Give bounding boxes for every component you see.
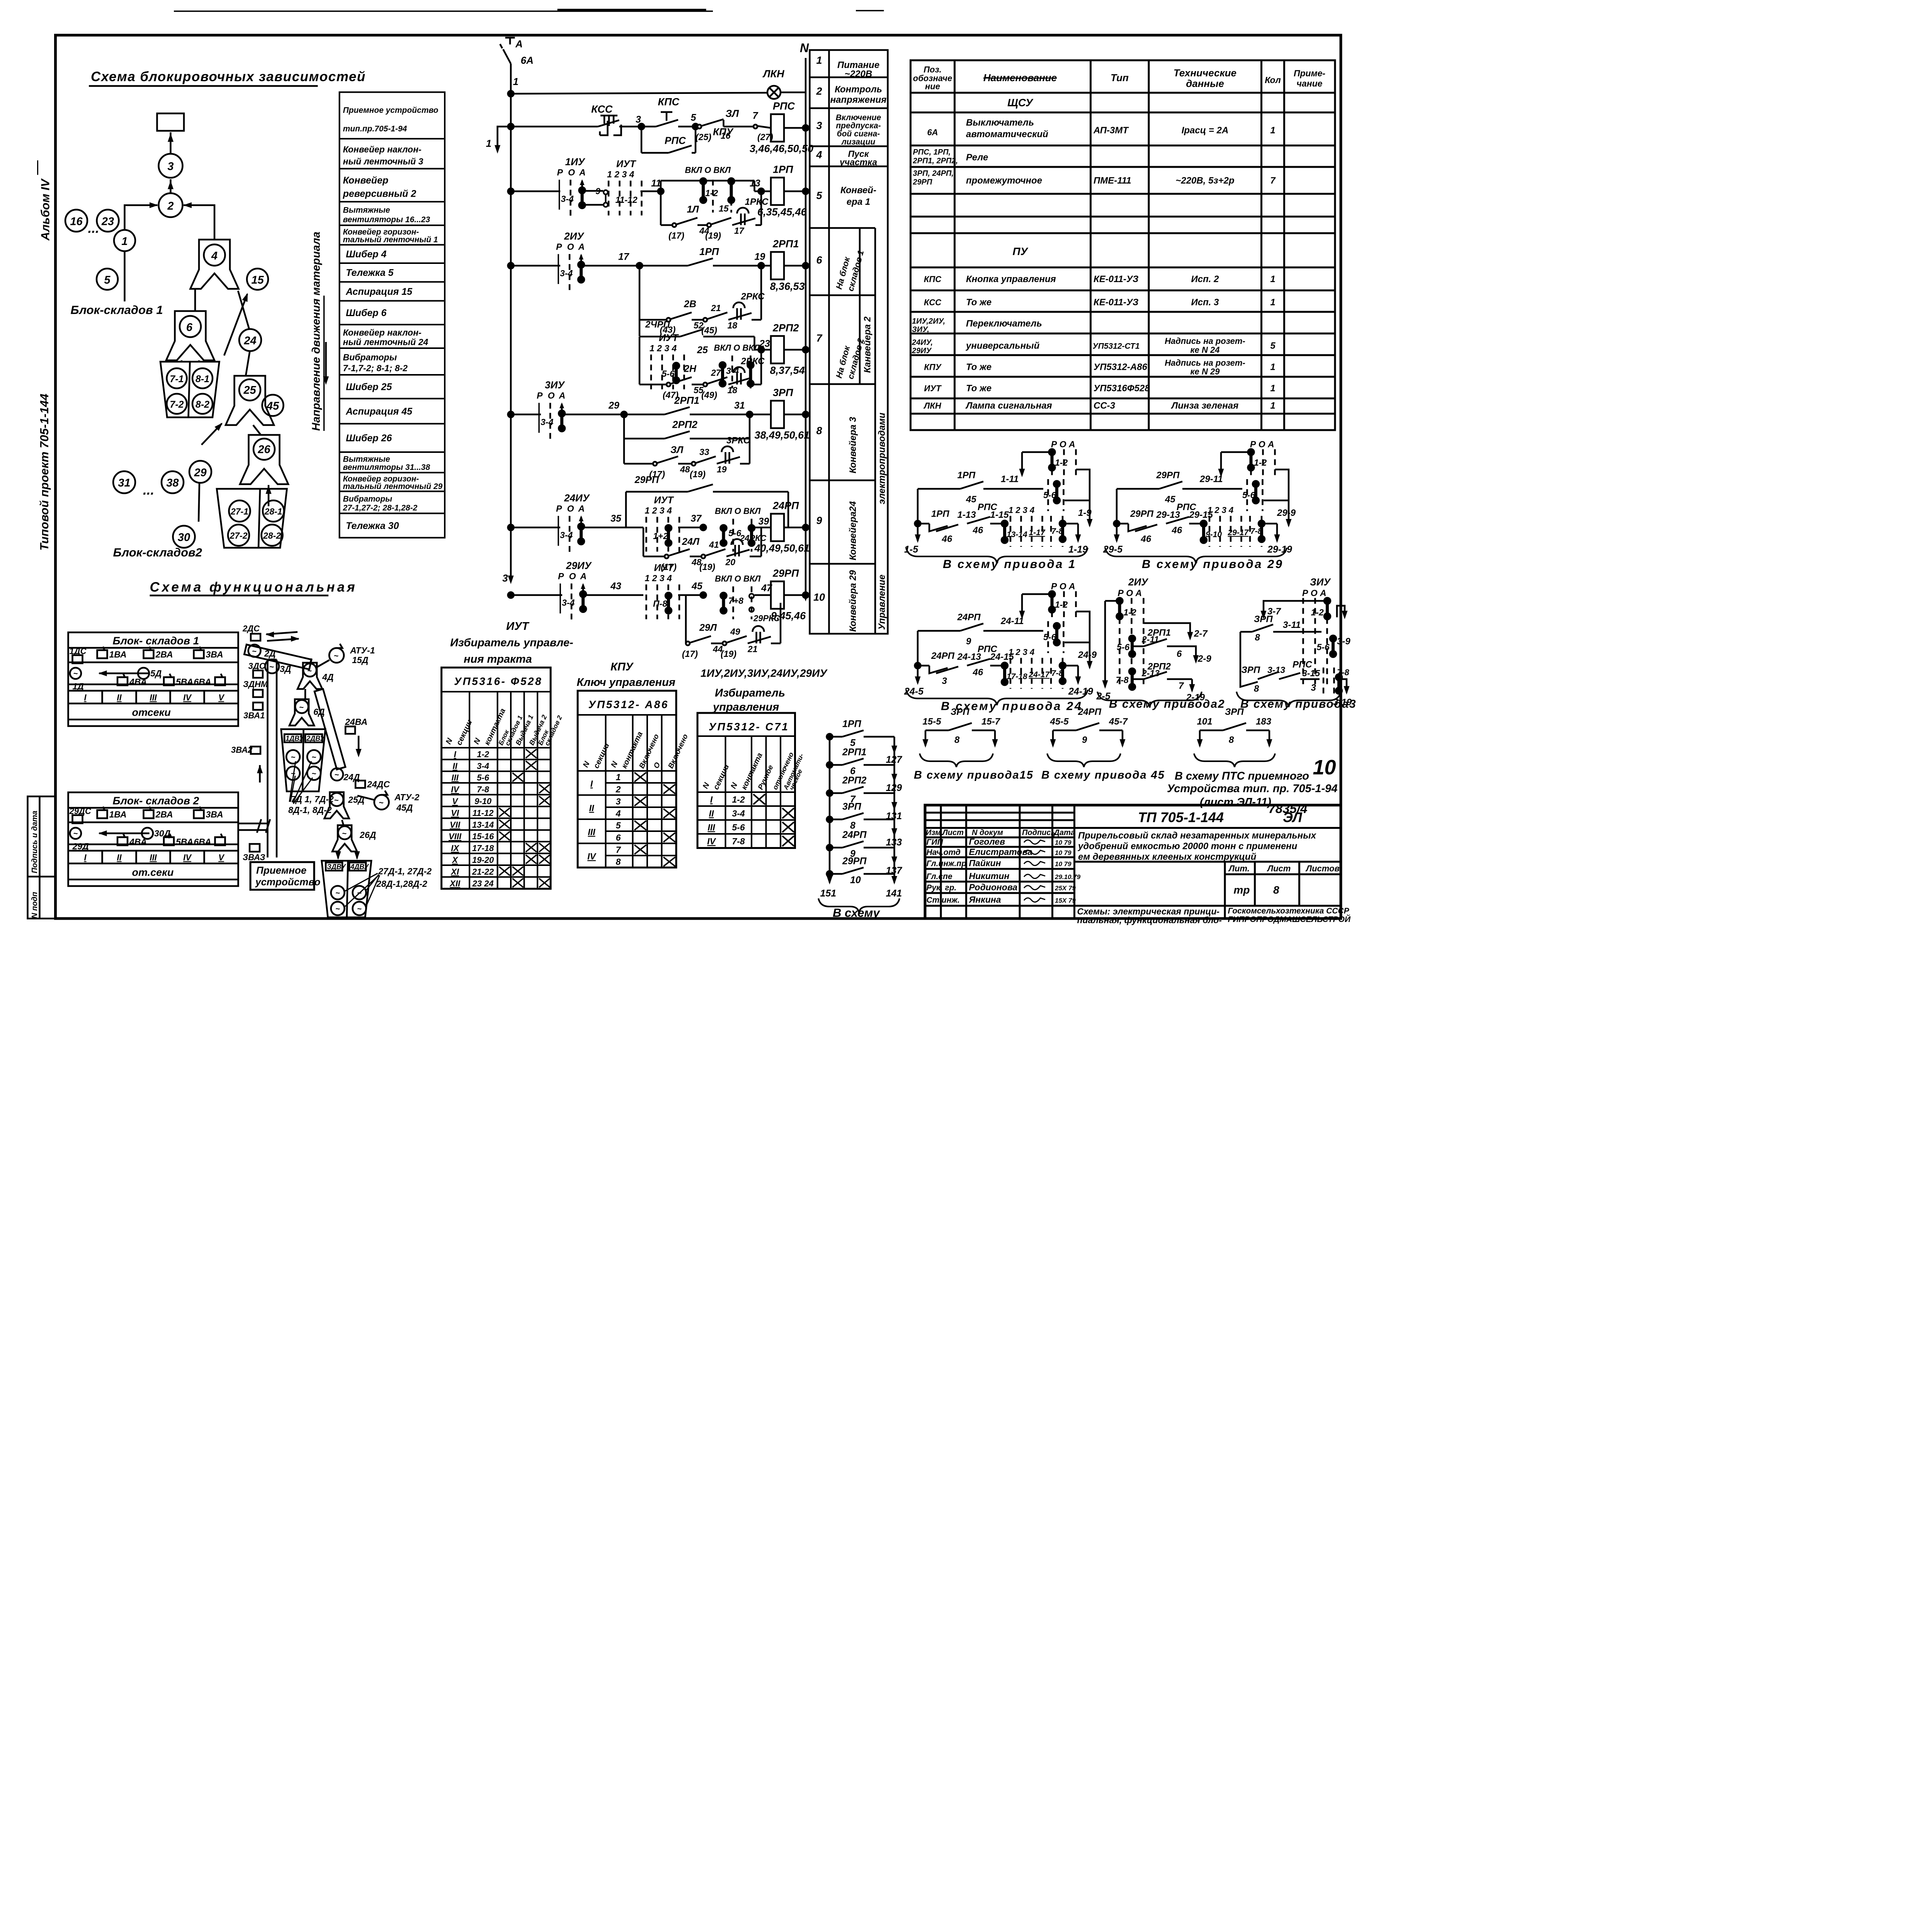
svg-text:(25): (25) (696, 132, 711, 142)
hopper 26Д (332, 825, 357, 852)
svg-text:3: 3 (816, 120, 822, 131)
motor 3Д (265, 660, 279, 674)
svg-text:24-5: 24-5 (904, 686, 924, 697)
svg-text:VII: VII (450, 820, 461, 830)
title block (925, 805, 1341, 919)
contact (688, 259, 713, 266)
sensor 4ВА (117, 677, 128, 686)
svg-text:Избиратель управле-: Избиратель управле- (450, 637, 573, 649)
contact (680, 329, 703, 337)
arrows (337, 852, 340, 859)
wire (641, 151, 668, 155)
svg-text:IV: IV (587, 851, 596, 861)
svg-text:28-2: 28-2 (263, 531, 281, 541)
svg-text:Ключ управления: Ключ управления (577, 676, 675, 689)
wire (753, 337, 756, 350)
svg-text:~: ~ (342, 830, 347, 838)
wire (1239, 632, 1242, 679)
svg-text:управления: управления (712, 701, 779, 713)
svg-text:ИУТ: ИУТ (616, 159, 637, 170)
svg-text:удобрений емкостью 20000 тон: удобрений емкостью 20000 тонн с применен… (1078, 841, 1298, 852)
contact (960, 481, 983, 489)
wire (199, 483, 199, 522)
svg-text:29ДС: 29ДС (69, 806, 92, 816)
wire (1246, 729, 1269, 732)
svg-text:127: 127 (886, 754, 903, 765)
wire (694, 127, 697, 153)
svg-text:6ВА: 6ВА (194, 677, 211, 687)
svg-text:А: А (578, 504, 585, 514)
svg-text:5-6: 5-6 (1043, 490, 1056, 500)
sensor 29ДС (73, 815, 83, 823)
wire (752, 318, 761, 322)
svg-text:10 79: 10 79 (1055, 839, 1071, 846)
svg-text:1 2 3 4: 1 2 3 4 (1207, 505, 1233, 515)
svg-text:Кнопка управления: Кнопка управления (966, 274, 1056, 284)
wire (918, 487, 960, 491)
svg-text:Конвейер наклон-: Конвейер наклон- (343, 328, 422, 338)
vibromotor (331, 902, 345, 915)
svg-text:Вибраторы: Вибраторы (343, 352, 397, 362)
contact (949, 723, 972, 730)
svg-text:Кол: Кол (1265, 75, 1281, 85)
wire (184, 205, 214, 240)
arrow (357, 736, 361, 755)
svg-text:Шибер 6: Шибер 6 (346, 308, 387, 318)
svg-text:3ВА1: 3ВА1 (243, 711, 265, 720)
svg-text:1-2: 1-2 (1055, 600, 1068, 610)
svg-text:Блок-складов2: Блок-складов2 (113, 546, 202, 559)
svg-text:2ДВУ: 2ДВУ (306, 735, 325, 742)
svg-text:III: III (588, 827, 595, 837)
arrows (266, 632, 298, 634)
svg-text:Подпись и дата: Подпись и дата (31, 811, 39, 873)
wire (169, 133, 172, 154)
wire (639, 383, 668, 386)
svg-text:~: ~ (379, 799, 383, 808)
svg-text:~: ~ (312, 753, 316, 762)
svg-text:тальный ленточный 29: тальный ленточный 29 (343, 482, 443, 491)
node 29 (189, 461, 211, 483)
wire (916, 489, 920, 524)
wire (690, 555, 703, 558)
svg-text:ния тракта: ния тракта (464, 653, 532, 665)
svg-text:IV: IV (451, 785, 460, 794)
wire (1117, 522, 1128, 526)
svg-text:О: О (568, 167, 575, 177)
svg-text:ИУТ: ИУТ (506, 620, 529, 633)
svg-text:Тип: Тип (1111, 72, 1129, 83)
svg-text:Устройства тип. пр. 705-1-94: Устройства тип. пр. 705-1-94 (1167, 782, 1337, 795)
button КСС (598, 116, 621, 135)
wire (784, 348, 806, 352)
svg-text:1-2: 1-2 (477, 750, 490, 759)
svg-text:Шибер 4: Шибер 4 (346, 249, 386, 260)
svg-text:1-15: 1-15 (990, 510, 1009, 520)
svg-text:Лампа сигнальная: Лампа сигнальная (965, 401, 1052, 411)
svg-text:30: 30 (178, 531, 190, 544)
svg-text:Блок-складов 1: Блок-складов 1 (71, 303, 163, 317)
svg-text:37: 37 (691, 513, 702, 524)
contact break (1128, 524, 1157, 531)
svg-text:N: N (800, 41, 809, 55)
svg-text:141: 141 (886, 888, 902, 899)
svg-text:9-10: 9-10 (474, 796, 492, 806)
svg-text:Типовой проект 705-1-144: Типовой проект 705-1-144 (37, 394, 51, 551)
svg-text:ЗИУ,: ЗИУ, (912, 325, 929, 334)
wire (583, 264, 640, 267)
wire (659, 191, 663, 225)
svg-text:Технические: Технические (1173, 67, 1236, 79)
svg-text:I: I (454, 750, 456, 759)
node 38 (162, 471, 184, 493)
svg-text:~: ~ (299, 703, 304, 712)
contact (703, 549, 726, 556)
wire (661, 179, 755, 182)
sensor 5ВА (164, 837, 174, 845)
wire (1275, 469, 1289, 526)
svg-text:7: 7 (1270, 175, 1276, 186)
svg-text:ЗРП: ЗРП (1254, 614, 1273, 624)
svg-text:II: II (709, 808, 714, 818)
svg-text:ера 1: ера 1 (847, 197, 870, 207)
svg-text:ЗВАЗ: ЗВАЗ (243, 852, 265, 862)
svg-text:24РП: 24РП (957, 612, 981, 623)
contact 29РКС (748, 626, 771, 643)
svg-text:Лит.: Лит. (1228, 864, 1250, 873)
wire (678, 125, 696, 128)
svg-text:2Д: 2Д (264, 648, 276, 658)
svg-text:3-4: 3-4 (541, 417, 553, 427)
svg-text:15Д: 15Д (352, 655, 369, 665)
svg-text:1РП: 1РП (699, 246, 719, 257)
svg-text:Дата: Дата (1053, 828, 1075, 837)
wire (703, 335, 755, 339)
svg-text:23: 23 (759, 339, 770, 349)
wire (760, 350, 763, 384)
wire (622, 415, 626, 464)
belt arrow (99, 672, 150, 675)
wire (724, 125, 756, 128)
contact РПС 3 (1279, 673, 1300, 679)
hopper 6 (166, 311, 214, 361)
svg-text:КСС: КСС (924, 298, 942, 307)
sensor 2ВА (144, 810, 154, 818)
svg-text:8: 8 (816, 425, 822, 437)
label box 2ДВУ (305, 734, 322, 742)
svg-text:КЕ-011-УЗ: КЕ-011-УЗ (1094, 297, 1138, 308)
wire (990, 522, 1005, 526)
sensor 24ВА (345, 726, 355, 734)
node 5 (97, 269, 118, 290)
svg-text:Госкомсельхозтехника СССР: Госкомсельхозтехника СССР (1228, 907, 1350, 915)
svg-text:7-8: 7-8 (732, 836, 745, 846)
svg-text:Прирельсовый склад незатарен: Прирельсовый склад незатаренных минераль… (1078, 830, 1317, 841)
svg-text:ГИПРОПРОДМАШСЕЛЬСТРОЙ: ГИПРОПРОДМАШСЕЛЬСТРОЙ (1228, 915, 1351, 924)
svg-text:3ВА: 3ВА (206, 810, 223, 820)
svg-text:АТУ-1: АТУ-1 (350, 645, 375, 655)
wire (1219, 452, 1223, 475)
svg-text:бой сигна-: бой сигна- (837, 129, 880, 138)
wire (713, 490, 788, 493)
svg-text:АТУ-2: АТУ-2 (394, 792, 420, 802)
signature (1024, 874, 1045, 879)
signature (1024, 850, 1045, 854)
svg-text:III: III (707, 822, 715, 832)
svg-text:То же: То же (966, 383, 992, 394)
svg-text:1-2: 1-2 (1311, 607, 1324, 617)
sensor 3ВА2 (251, 747, 260, 754)
svg-text:КПУ: КПУ (611, 661, 634, 673)
svg-text:(49): (49) (701, 390, 717, 400)
hopper 4Д (298, 663, 322, 689)
svg-text:31: 31 (734, 400, 745, 411)
svg-text:29Л: 29Л (699, 623, 717, 633)
svg-text:Никитин: Никитин (969, 871, 1010, 881)
svg-text:3,46,46,50,50: 3,46,46,50,50 (750, 143, 813, 155)
svg-text:Р: Р (558, 571, 564, 581)
svg-text:24-19: 24-19 (1068, 686, 1093, 697)
svg-text:2: 2 (816, 85, 822, 97)
svg-text:Управление: Управление (877, 575, 887, 630)
equipment list column (340, 92, 445, 538)
wire (690, 413, 771, 416)
sensor ЗДНМ (253, 690, 263, 697)
svg-text:3: 3 (167, 160, 173, 173)
svg-text:Лист: Лист (1267, 864, 1291, 873)
svg-text:47: 47 (761, 583, 772, 594)
wire N bus (804, 58, 808, 599)
svg-text:ИУТ: ИУТ (654, 495, 675, 506)
svg-text:Гл.инж.пр: Гл.инж.пр (927, 859, 967, 868)
border frame (56, 35, 1341, 919)
wire (760, 266, 763, 320)
svg-text:ВКЛ О ВКЛ: ВКЛ О ВКЛ (685, 165, 731, 175)
svg-text:УП5312-А86: УП5312-А86 (1094, 362, 1148, 373)
svg-text:ПМЕ-111: ПМЕ-111 (1094, 175, 1131, 186)
relay coil 2РП1 (771, 252, 784, 279)
svg-text:ЗРП: ЗРП (1242, 665, 1260, 675)
wire (1144, 623, 1190, 639)
svg-text:I: I (710, 794, 713, 805)
svg-text:1: 1 (616, 772, 621, 782)
pointer (344, 873, 380, 907)
svg-text:Елистратова: Елистратова (969, 847, 1033, 857)
drive fragment В схему привода 24 (906, 591, 1093, 706)
svg-text:1 2 3 4: 1 2 3 4 (650, 343, 677, 353)
svg-text:19: 19 (755, 252, 765, 262)
hopper 4 (190, 240, 239, 289)
contact break 3РП (1240, 679, 1258, 687)
contact 1РКС (732, 208, 755, 225)
svg-text:5-6: 5-6 (477, 773, 490, 782)
svg-text:5ВА: 5ВА (176, 677, 193, 687)
wire (690, 437, 750, 441)
svg-text:4ВА: 4ВА (129, 837, 147, 847)
svg-text:17-18: 17-18 (472, 844, 494, 853)
wire arrow into hopper4 (224, 294, 247, 356)
svg-text:1ВА: 1ВА (109, 810, 127, 820)
svg-text:3РП: 3РП (842, 801, 862, 812)
svg-text:Р О А: Р О А (1250, 439, 1274, 449)
svg-text:~: ~ (269, 663, 274, 672)
wire (1076, 612, 1090, 668)
svg-text:ЗРП: ЗРП (1225, 707, 1244, 717)
svg-text:29ИУ: 29ИУ (912, 347, 932, 355)
svg-text:28-1: 28-1 (264, 507, 282, 517)
svg-text:(лист ЭЛ-11): (лист ЭЛ-11) (1200, 796, 1271, 808)
motor 2 (138, 668, 149, 679)
wire (639, 318, 668, 322)
wire (1264, 601, 1327, 617)
motor (70, 668, 81, 679)
svg-text:2ИУ: 2ИУ (564, 230, 585, 242)
wire (748, 439, 752, 464)
svg-text:Контроль: Контроль (835, 84, 882, 95)
contact break (929, 524, 958, 531)
svg-text:8: 8 (616, 857, 621, 867)
svg-text:ЗЛ: ЗЛ (726, 108, 740, 119)
belt arrow (99, 832, 150, 835)
contact (665, 407, 690, 415)
node 26 (253, 439, 275, 460)
sensor 5ВА (164, 677, 174, 686)
svg-text:24-9: 24-9 (1078, 650, 1097, 660)
wire (918, 522, 929, 526)
svg-text:2: 2 (616, 784, 621, 794)
wire bus (828, 737, 832, 883)
svg-text:43: 43 (610, 581, 621, 592)
svg-text:N докум: N докум (972, 828, 1003, 837)
svg-text:VIII: VIII (449, 832, 462, 841)
svg-text:1РП: 1РП (842, 719, 862, 730)
svg-text:~: ~ (334, 796, 339, 805)
sensor 3ДС (253, 670, 263, 678)
caption С71 (701, 667, 828, 714)
svg-text:21-22: 21-22 (472, 867, 494, 877)
wire (624, 437, 665, 441)
svg-text:Направление движения материал: Направление движения материала (310, 231, 323, 431)
svg-text:2РП1: 2РП1 (674, 395, 699, 406)
svg-text:6ВА: 6ВА (194, 837, 211, 847)
contact РПС (1166, 517, 1189, 524)
wire (752, 383, 761, 386)
svg-text:V: V (218, 853, 225, 862)
svg-text:Тележка 30: Тележка 30 (346, 521, 399, 531)
svg-text:9: 9 (595, 186, 600, 196)
svg-text:(19): (19) (705, 231, 721, 241)
svg-text:3: 3 (636, 114, 641, 125)
svg-text:~: ~ (252, 647, 257, 656)
svg-text:17: 17 (734, 226, 745, 236)
svg-text:Р О А: Р О А (1051, 439, 1075, 449)
svg-text:29РП: 29РП (842, 856, 867, 867)
svg-text:45: 45 (691, 581, 703, 592)
fan АТУ-2 (374, 795, 389, 810)
contact (655, 456, 678, 464)
contact break (929, 666, 958, 674)
svg-text:1РП: 1РП (773, 164, 793, 175)
svg-text:~: ~ (335, 771, 339, 779)
svg-text:1ИУ: 1ИУ (565, 156, 586, 168)
svg-text:ЗРП: ЗРП (951, 707, 969, 717)
drive fragment В схему привода 1 (906, 449, 1093, 563)
svg-text:вентиляторы 16...23: вентиляторы 16...23 (343, 215, 430, 224)
svg-text:3-9: 3-9 (1337, 636, 1350, 647)
contact (688, 485, 713, 492)
node 2 (159, 193, 183, 217)
svg-text:11-12: 11-12 (616, 195, 638, 205)
svg-text:46: 46 (973, 525, 983, 536)
node 30 (173, 526, 195, 548)
svg-text:15: 15 (251, 274, 264, 286)
svg-text:4ДВУ: 4ДВУ (350, 863, 369, 871)
svg-text:Гоголев: Гоголев (969, 837, 1005, 847)
svg-text:II: II (117, 693, 122, 703)
svg-text:5Д: 5Д (150, 669, 162, 679)
svg-text:КЕ-011-УЗ: КЕ-011-УЗ (1094, 274, 1138, 284)
wire (1268, 730, 1271, 746)
svg-text:21: 21 (747, 644, 758, 654)
wire (784, 526, 806, 529)
svg-text:...: ... (88, 221, 99, 236)
svg-text:IV: IV (183, 853, 192, 862)
svg-text:КСС: КСС (591, 104, 613, 115)
svg-text:Блок- складов 1: Блок- складов 1 (113, 635, 199, 647)
svg-text:А: А (515, 38, 523, 50)
svg-text:~: ~ (291, 770, 296, 778)
wire (1273, 630, 1321, 634)
hopper 26 (240, 435, 288, 485)
svg-text:Надпись на розет-: Надпись на розет- (1165, 336, 1245, 346)
svg-text:Янкина: Янкина (969, 895, 1001, 905)
svg-text:29-11: 29-11 (1199, 474, 1223, 485)
wire (697, 223, 709, 227)
svg-text:38,49,50,61: 38,49,50,61 (755, 429, 810, 441)
wire (511, 264, 560, 267)
wire (990, 664, 1005, 667)
svg-text:(19): (19) (721, 649, 736, 659)
svg-text:ЗИУ: ЗИУ (1310, 576, 1331, 588)
svg-text:19-20: 19-20 (472, 855, 494, 865)
svg-text:30Д: 30Д (154, 828, 171, 839)
svg-text:2РП2: 2РП2 (842, 775, 867, 786)
sensor 3ВА (194, 810, 204, 818)
wire (1076, 469, 1090, 526)
contact РПС (967, 659, 990, 666)
svg-text:24ВА: 24ВА (345, 717, 367, 727)
vibrator 27-2 (228, 525, 249, 546)
svg-text:В схему: В схему (833, 906, 880, 920)
wire (1117, 487, 1159, 491)
svg-text:1 2 3 4: 1 2 3 4 (1009, 647, 1034, 657)
sensor 1ДС (73, 655, 83, 663)
svg-text:1: 1 (1270, 125, 1275, 136)
svg-text:27-1: 27-1 (230, 507, 248, 517)
svg-text:29-5: 29-5 (1103, 544, 1123, 555)
svg-text:23 24: 23 24 (472, 879, 493, 888)
svg-text:8Д-1, 8Д-2: 8Д-1, 8Д-2 (288, 805, 332, 815)
svg-text:1-5: 1-5 (904, 544, 918, 555)
svg-text:1: 1 (816, 54, 822, 66)
wire (692, 383, 705, 386)
svg-text:2-7: 2-7 (1194, 629, 1208, 639)
svg-text:5: 5 (104, 274, 111, 286)
hopper 25 (226, 376, 274, 425)
svg-text:ЩСУ: ЩСУ (1007, 97, 1034, 109)
block table Блок- складов 1 (68, 633, 238, 726)
svg-text:напряжения: напряжения (830, 95, 887, 105)
